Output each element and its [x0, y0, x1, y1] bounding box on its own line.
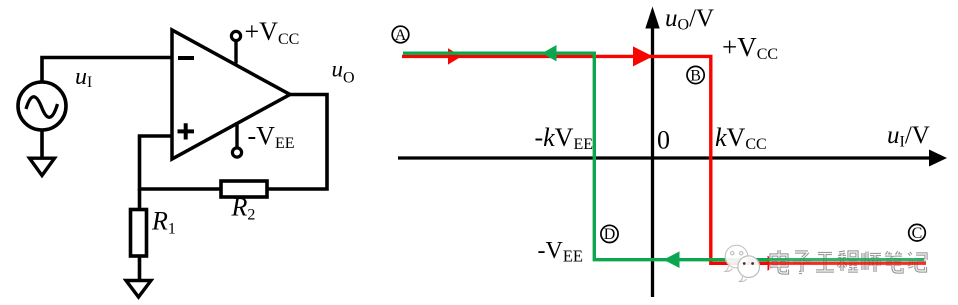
ground (source)	[30, 158, 55, 175]
-VEE terminal	[232, 122, 241, 157]
watermark logo (chat bubbles)	[725, 245, 760, 281]
wire: R1 to ground	[138, 256, 142, 282]
red arrow (bottom, partially hidden by watermark)	[768, 256, 782, 271]
svg-text:C: C	[912, 225, 923, 242]
source V1 (sine source)	[18, 82, 66, 130]
ground (R1)	[126, 281, 151, 298]
op-amp U1	[172, 30, 290, 159]
resistor R2	[221, 181, 267, 197]
green transfer path (decreasing sweep)	[403, 53, 924, 260]
svg-text:uO: uO	[332, 57, 355, 87]
svg-text:kVCC: kVCC	[715, 123, 767, 153]
op-amp minus symbol	[178, 56, 194, 60]
watermark text 电子工程师笔记 (drawn strokes)	[769, 247, 930, 278]
svg-text:A: A	[395, 27, 407, 44]
op-amp plus symbol	[178, 123, 195, 139]
label +VCC (graph)	[722, 32, 778, 63]
label -VEE (circuit)	[248, 122, 295, 153]
green arrow (top, pointing left)	[542, 45, 557, 61]
label R2	[231, 193, 256, 224]
wire: output node	[267, 95, 327, 190]
resistor R1	[131, 210, 147, 257]
svg-text:R1: R1	[151, 207, 176, 238]
svg-text:0: 0	[657, 126, 670, 155]
svg-text:B: B	[690, 68, 701, 85]
svg-text:+VCC: +VCC	[722, 32, 778, 63]
x-axis	[398, 150, 947, 167]
label -kVEE	[534, 123, 593, 153]
label -VEE (graph)	[538, 238, 584, 266]
red transfer path (increasing sweep)	[402, 56, 926, 263]
svg-text:uO/V: uO/V	[665, 5, 714, 34]
label 0 (origin)	[657, 126, 670, 155]
wire: source bottom to ground	[40, 130, 44, 160]
red arrow (top small, pointing right)	[448, 48, 462, 64]
svg-text:D: D	[604, 226, 616, 243]
label kVCC	[715, 123, 767, 153]
label R1	[151, 207, 176, 238]
node A	[392, 26, 409, 44]
wire: noninverting input to feedback node	[140, 136, 222, 189]
node B	[687, 66, 704, 84]
label +VCC (circuit)	[245, 17, 300, 48]
red arrow (top large, pointing right)	[633, 46, 653, 66]
svg-text:uI: uI	[75, 64, 92, 91]
node D	[601, 225, 618, 243]
svg-text:-kVEE: -kVEE	[534, 123, 593, 153]
bottom lines redrawn lightly over watermark	[766, 260, 926, 264]
label uO	[332, 57, 355, 87]
wire: source top to inverting input	[42, 58, 172, 84]
wire: feedback node down to R1	[138, 189, 142, 210]
svg-text:-VEE: -VEE	[248, 122, 295, 153]
svg-text:+VCC: +VCC	[245, 17, 300, 48]
green arrow (bottom, pointing left)	[664, 251, 680, 268]
svg-text:-VEE: -VEE	[538, 238, 584, 266]
y-axis	[645, 7, 659, 298]
+VCC terminal	[231, 31, 240, 63]
node C	[909, 224, 926, 242]
label uO/V (y-axis)	[665, 5, 714, 34]
label uI/V (x-axis)	[887, 122, 930, 151]
label uI	[75, 64, 92, 91]
svg-text:uI/V: uI/V	[887, 122, 930, 151]
